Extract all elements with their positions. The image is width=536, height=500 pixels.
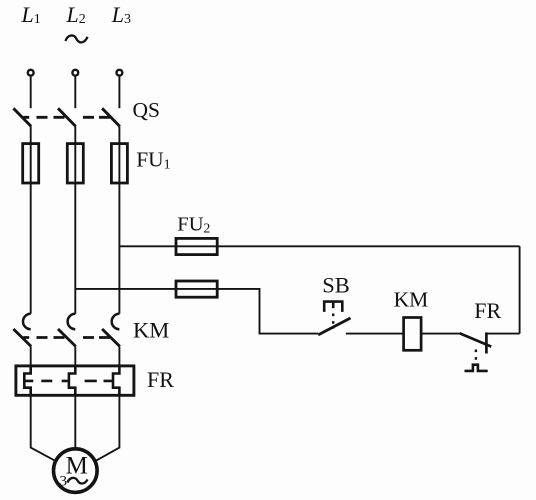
motor M circle bbox=[54, 449, 98, 493]
svg-text:M: M bbox=[66, 452, 88, 479]
node L2 terminal bbox=[72, 70, 78, 76]
wire FU2 lower to drop bbox=[217, 289, 318, 334]
fuse FU1 pole2 bbox=[67, 144, 83, 183]
wire branch L2 to FU2 lower bbox=[75, 288, 217, 290]
wire FU1 to KM pole2 bbox=[74, 183, 76, 314]
wire QS to FU1 pole3 bbox=[118, 126, 120, 183]
contactor KM pole3 arc bbox=[112, 314, 120, 329]
pushbutton SB dotted link bbox=[332, 314, 334, 330]
svg-text:FU2: FU2 bbox=[177, 214, 210, 236]
wire FR box to motor pole2 bbox=[74, 395, 76, 448]
FR elements coupling dashed line bbox=[25, 380, 113, 383]
wire FU2 upper to right riser bbox=[217, 245, 519, 247]
FR NC contact blade bbox=[460, 333, 492, 346]
svg-text:L2: L2 bbox=[66, 2, 86, 27]
node L3 terminal bbox=[117, 70, 123, 76]
pushbutton SB blade bbox=[318, 318, 350, 335]
fuse FU2 lower bbox=[176, 281, 217, 297]
fuse FU1 pole3 bbox=[111, 144, 127, 183]
svg-text:L1: L1 bbox=[21, 2, 41, 27]
wire FU1 to KM pole3 bbox=[118, 183, 120, 314]
svg-text:SB: SB bbox=[322, 273, 350, 298]
node L1 terminal bbox=[28, 70, 34, 76]
wire QS to FU1 pole1 bbox=[30, 126, 32, 183]
wire L2 drop to QS bbox=[74, 76, 76, 109]
KM contacts coupling dashed line bbox=[23, 336, 110, 339]
svg-text:QS: QS bbox=[133, 98, 160, 122]
wire FU1 to KM pole1 bbox=[30, 183, 32, 314]
svg-text:3: 3 bbox=[60, 474, 68, 490]
FR dotted link bbox=[475, 350, 477, 364]
FR heater element 2 bbox=[69, 366, 75, 395]
wire QS to FU1 pole2 bbox=[74, 126, 76, 183]
wire KM to FR box pole1 bbox=[30, 346, 32, 366]
FR heater element 3 bbox=[113, 366, 119, 395]
svg-text:KM: KM bbox=[133, 318, 169, 343]
wire FR box to motor pole3 bbox=[96, 395, 119, 460]
switch QS pole 2 blade bbox=[58, 108, 76, 126]
contactor KM pole3 blade bbox=[102, 329, 120, 346]
contactor KM pole2 blade bbox=[58, 329, 76, 346]
svg-text:FU1: FU1 bbox=[136, 148, 170, 173]
wire L3 drop to QS bbox=[118, 76, 120, 109]
wire KM coil to FR contact bbox=[421, 333, 460, 335]
pushbutton SB actuator cap bbox=[324, 302, 342, 312]
contactor KM pole1 arc bbox=[23, 314, 31, 329]
wire KM to FR box pole3 bbox=[118, 346, 120, 366]
AC tilde symbol under L2 bbox=[65, 35, 87, 42]
wire SB to KM coil bbox=[346, 333, 404, 335]
contactor KM pole2 arc bbox=[68, 314, 76, 329]
wire KM to FR box pole2 bbox=[74, 346, 76, 366]
motor tilde bbox=[67, 478, 87, 484]
wire FR contact to right riser bbox=[486, 333, 519, 335]
FR heater element 1 bbox=[24, 366, 30, 395]
wire branch L3 to FU2 upper bbox=[119, 245, 217, 247]
switch QS pole 1 blade bbox=[13, 108, 31, 126]
svg-text:L3: L3 bbox=[111, 2, 131, 27]
QS coupling dashed line bbox=[23, 116, 110, 119]
svg-text:FR: FR bbox=[147, 367, 174, 392]
coil KM bbox=[404, 318, 422, 351]
svg-text:FR: FR bbox=[474, 298, 501, 323]
pushbutton SB plunger stub bbox=[332, 302, 335, 309]
thermal relay FR box bbox=[16, 366, 134, 395]
FR thermal element symbol bbox=[465, 365, 488, 371]
svg-text:KM: KM bbox=[394, 287, 429, 311]
FR NC contact stop bar bbox=[485, 332, 488, 353]
fuse FU1 pole1 bbox=[23, 144, 39, 183]
wire FR box to motor pole1 bbox=[31, 395, 55, 460]
contactor KM pole1 blade bbox=[13, 329, 31, 346]
fuse FU2 upper bbox=[176, 238, 217, 254]
wire right riser down bbox=[519, 246, 521, 333]
switch QS pole 3 blade bbox=[102, 108, 120, 126]
wire L1 drop to QS bbox=[30, 76, 32, 109]
